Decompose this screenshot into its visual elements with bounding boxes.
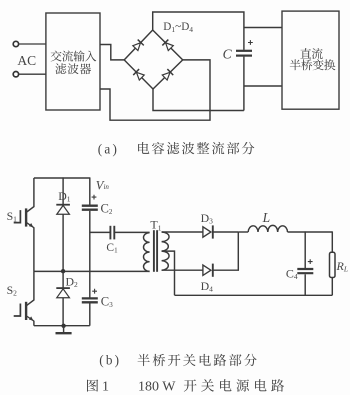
wire bridge bottom vertex to capacitor bottom [153, 89, 244, 111]
figure caption [87, 379, 284, 395]
wire filter bottom output to bridge right vertex [100, 60, 210, 120]
wire secondary bottom to D4 [162, 269, 203, 271]
capacitor C4 [286, 231, 313, 295]
junction dot ground [61, 324, 65, 328]
terminal circle top [13, 41, 18, 46]
terminal circle bottom [13, 72, 18, 77]
wire bridge top vertex to capacitor C top [153, 12, 244, 50]
wire AC top lead [19, 43, 46, 45]
wire D4 to junction vertical [213, 232, 238, 270]
svg-text:AC: AC [17, 53, 36, 68]
caption (b) [99, 353, 257, 368]
wire secondary center tap [162, 251, 175, 295]
diode D3 [201, 211, 214, 239]
wire secondary top to D3 [162, 231, 203, 233]
wire D3 to junction [213, 231, 238, 233]
resistor RL [330, 231, 349, 295]
wire branch to C1 [90, 231, 111, 233]
diode bridge lower-left D3 [133, 69, 144, 80]
wire junction to L [238, 231, 248, 233]
inductor L [248, 210, 287, 232]
wire dc minus branch to converter block [244, 85, 282, 87]
wire bottom rail S2 to C3 [34, 325, 90, 327]
capacitor C [223, 40, 253, 61]
diode bridge upper-right D2 [162, 40, 173, 51]
diode D4 [201, 264, 214, 294]
transformer T1 [144, 218, 170, 272]
svg-text:D1​~D4: D1​~D4 [163, 21, 193, 34]
wire dc plus branch to converter block [244, 27, 282, 29]
svg-text:(a): (a) [98, 141, 119, 156]
diode D1 [56, 177, 70, 271]
diode bridge lower-right D4 [162, 69, 173, 80]
svg-text:C: C [223, 47, 233, 62]
diode bridge upper-left D1 [132, 40, 143, 51]
wire L to output corner [288, 231, 333, 233]
ground [56, 326, 72, 333]
wire Vin top rail [34, 177, 90, 179]
junction dot D2 top [61, 269, 65, 273]
wire capacitor C bottom vertical [243, 57, 245, 111]
capacitor C2 [82, 177, 113, 216]
svg-text:(b): (b) [99, 353, 121, 368]
capacitor C1 [106, 226, 118, 255]
wire AC bottom lead [19, 73, 46, 75]
wire filter top output to bridge left vertex [100, 45, 124, 60]
capacitor C3 [82, 289, 113, 326]
wire midpoint rail to primary bottom [34, 270, 150, 272]
diode D2 [56, 271, 78, 326]
wire C1 to transformer primary top [114, 231, 149, 233]
wire C2-C3 midpoint vertical [89, 211, 91, 298]
block AC input filter [46, 13, 100, 110]
block DC half-bridge converter [282, 11, 339, 109]
caption (a) [98, 141, 255, 156]
svg-text:L: L [262, 210, 271, 225]
wire output bottom rail [175, 294, 333, 296]
svg-text:180 W: 180 W [138, 380, 176, 395]
wire bridge diamond sides [124, 30, 183, 89]
transistor S1 [7, 178, 34, 271]
transistor S2 [7, 271, 34, 325]
svg-text:1: 1 [102, 380, 109, 395]
